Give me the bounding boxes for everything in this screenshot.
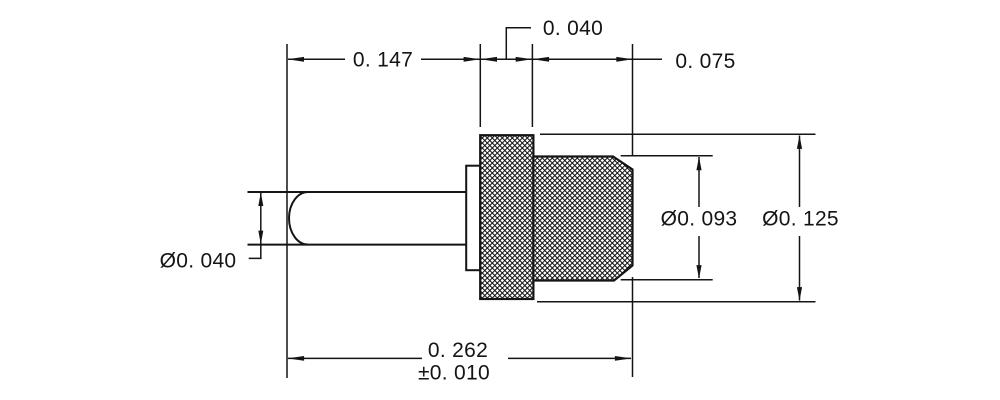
dim diameter 0.040 down arrow [258, 231, 263, 245]
extension line at pin tip x=287 [286, 44, 288, 378]
knurled head outline [533, 157, 632, 281]
leader for 0.040 [506, 28, 531, 60]
extension line at part right x=632.5 lower [632, 277, 634, 377]
knurled head with chamfered right corners (crosshatched) [533, 157, 632, 281]
dim diameter 0.093 up arrow [696, 157, 701, 171]
svg-text:0. 147: 0. 147 [353, 49, 413, 72]
svg-text:Ø0. 093: Ø0. 093 [661, 207, 738, 230]
knurled flange (crosshatched) [480, 135, 533, 299]
dim 0.040 left arrow [480, 57, 497, 62]
dim 0.075 line with tail [532, 58, 662, 60]
svg-text:±0. 010: ±0. 010 [418, 362, 490, 385]
dim diameter 0.093 down arrow [696, 265, 701, 279]
pin top edge with diameter extension line [248, 191, 467, 193]
dim 0.147 right arrow [464, 57, 481, 62]
pin bottom edge with diameter extension line [248, 244, 467, 246]
dim 0.040 line [480, 58, 532, 60]
flange outline [480, 135, 533, 299]
collar step [466, 166, 480, 271]
dim diameter 0.125 down arrow [797, 287, 802, 301]
dim diameter 0.125 upper segment [799, 136, 801, 208]
crosshatch texture holes of flange and head [478, 131, 637, 305]
diameter 0.093 bottom extension line [621, 279, 713, 281]
dim 0.262 left arrow [287, 356, 304, 361]
dim diameter 0.125 lower segment [799, 236, 801, 301]
dim 0.040 right arrow [516, 57, 533, 62]
dim diameter 0.093 upper segment [698, 157, 700, 207]
extension line at flange left x=480 [479, 44, 481, 127]
dim 0.262 right segment [508, 357, 631, 359]
pin rounded tip arc [289, 192, 308, 245]
dim 0.147 left arrow [287, 57, 304, 62]
dim 0.262 right arrow [615, 356, 632, 361]
svg-text:Ø0. 125: Ø0. 125 [762, 207, 839, 230]
dim 0.075 left arrow [532, 57, 549, 62]
diameter 0.125 top extension line [540, 133, 816, 135]
dim 0.147 left segment [288, 58, 345, 60]
svg-text:Ø0. 040: Ø0. 040 [160, 249, 237, 272]
svg-text:0. 262: 0. 262 [428, 339, 488, 362]
dim diameter 0.093 lower segment [698, 236, 700, 278]
svg-text:0. 040: 0. 040 [543, 17, 603, 40]
extension line at part right x=632.5 upper [632, 44, 634, 156]
dim diameter 0.040 up arrow [258, 192, 263, 206]
dim 0.147 right segment [421, 58, 480, 60]
diameter 0.093 top extension line [621, 155, 713, 157]
diameter 0.125 bottom extension line [537, 301, 816, 303]
leader for diameter 0.040 [249, 245, 261, 259]
dim 0.075 right arrow [616, 57, 633, 62]
svg-text:0. 075: 0. 075 [675, 50, 735, 73]
dim diameter 0.125 up arrow [797, 135, 802, 149]
dim 0.262 left segment [288, 357, 422, 359]
dim diameter 0.040 vertical line [260, 192, 262, 245]
extension line at flange right x=532.4 [531, 44, 533, 127]
